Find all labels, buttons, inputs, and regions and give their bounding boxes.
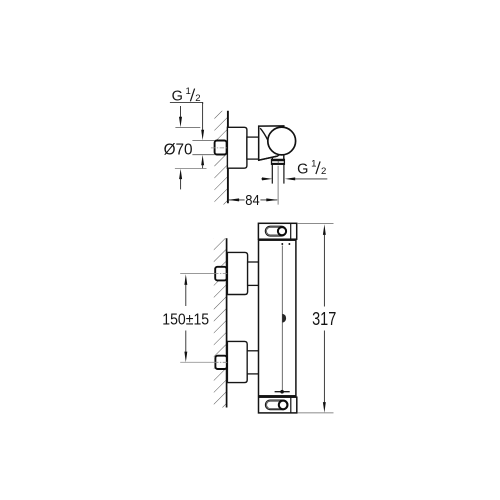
wall hatching (bottom view) xyxy=(214,238,227,407)
150 dim upper arrowhead (up) xyxy=(184,274,187,285)
top grip knob circle xyxy=(278,227,286,235)
crossbar dot xyxy=(280,390,284,394)
nut top extension line xyxy=(192,139,214,141)
Ø70 upper arrowhead (down) xyxy=(179,117,182,127)
wall line (bottom view) xyxy=(226,238,228,407)
wall hatching (top view) xyxy=(214,111,227,205)
84 dim line left xyxy=(228,199,245,201)
bottom block face line xyxy=(290,397,292,413)
317 shaft upper xyxy=(323,235,325,307)
317 dim bottom extension line xyxy=(297,412,333,414)
84 dim line right xyxy=(260,199,277,201)
bottom grip stadium xyxy=(265,400,288,410)
outlet collar xyxy=(272,159,285,164)
valve body (top view) xyxy=(259,126,284,160)
G1/2 lower arrowhead (up) xyxy=(201,155,204,165)
150 dim lower arrowhead (down) xyxy=(184,352,187,363)
150 dim shaft upper xyxy=(185,285,187,306)
svg-text:2: 2 xyxy=(321,166,326,177)
317 top arrowhead (up) xyxy=(323,224,326,235)
outlet pipe left wall xyxy=(271,164,273,183)
G1/2 lower arrow shaft xyxy=(202,165,204,169)
label underline G1/2 top xyxy=(170,102,203,104)
svg-text:G: G xyxy=(297,162,308,178)
body fillet arc xyxy=(260,128,268,140)
svg-text:1: 1 xyxy=(311,159,316,170)
upper connection pipe xyxy=(248,262,259,285)
Ø70 lower arrowhead (up) xyxy=(179,169,182,179)
collar thick top band xyxy=(272,159,285,161)
svg-text:317: 317 xyxy=(312,309,336,329)
top block face line xyxy=(290,223,292,239)
svg-text:1: 1 xyxy=(186,86,191,97)
escutcheon flange (top view) xyxy=(227,127,247,168)
top grip stadium xyxy=(265,226,286,236)
lower nut centerline xyxy=(214,361,228,363)
84 arrowhead right-pointing xyxy=(266,198,277,201)
hex nut in wall (top view) xyxy=(215,141,227,155)
svg-text:Ø70: Ø70 xyxy=(164,141,193,158)
150 dim shaft lower xyxy=(185,331,187,352)
indicator dots xyxy=(281,243,283,245)
top grip inner stadium xyxy=(267,227,286,235)
top handle block xyxy=(258,223,296,239)
collar facet line xyxy=(277,161,279,164)
outlet pipe centerline xyxy=(277,166,279,205)
outlet neck left edge xyxy=(271,157,273,159)
317 shaft lower xyxy=(323,331,325,403)
317 dim top extension line xyxy=(297,222,334,224)
150 dim upper extension line xyxy=(180,273,214,275)
outlet dim arrowhead right-pointing xyxy=(262,177,272,180)
lower connection pipe xyxy=(247,351,259,374)
lower escutcheon xyxy=(227,341,247,382)
svg-text:84: 84 xyxy=(245,193,259,209)
Ø70 top extension line xyxy=(175,126,200,128)
outlet dim line right xyxy=(295,178,327,180)
Ø70 lower arrow shaft xyxy=(180,179,182,190)
outlet neck right edge xyxy=(283,155,285,159)
knob circle (top view) xyxy=(268,127,296,155)
upper escutcheon xyxy=(227,252,247,294)
crossbar marker xyxy=(275,391,290,393)
Ø70 bottom extension line xyxy=(175,168,207,170)
G1/2 upper arrow shaft xyxy=(202,102,204,130)
nut bottom extension line xyxy=(192,154,214,156)
bottom grip inner stadium xyxy=(267,401,287,408)
connection pipe flange to body xyxy=(247,137,259,159)
upper nut centerline xyxy=(214,273,228,275)
wall line (top view) xyxy=(227,111,229,203)
upper hex nut xyxy=(215,267,226,281)
lower hex nut xyxy=(215,356,226,369)
G1/2 upper arrowhead (down) xyxy=(201,130,204,140)
84 arrowhead left-pointing xyxy=(228,198,239,201)
bottom handle block xyxy=(259,397,297,413)
main body xyxy=(259,240,296,396)
safety stop half-disk on centerline xyxy=(282,314,286,323)
Ø70 upper arrow shaft xyxy=(180,106,182,117)
svg-text:150±15: 150±15 xyxy=(162,312,209,329)
outlet dim line left xyxy=(261,178,265,180)
outlet dim arrowhead left-pointing xyxy=(285,177,295,180)
bottom grip knob circle xyxy=(279,401,288,410)
body bottom edge xyxy=(259,156,278,160)
150 dim lower extension line xyxy=(180,361,214,363)
nut centerline (top view) xyxy=(211,147,228,149)
body centerline xyxy=(281,246,283,391)
317 bottom arrowhead (down) xyxy=(323,402,326,413)
outlet pipe right wall xyxy=(283,164,285,183)
